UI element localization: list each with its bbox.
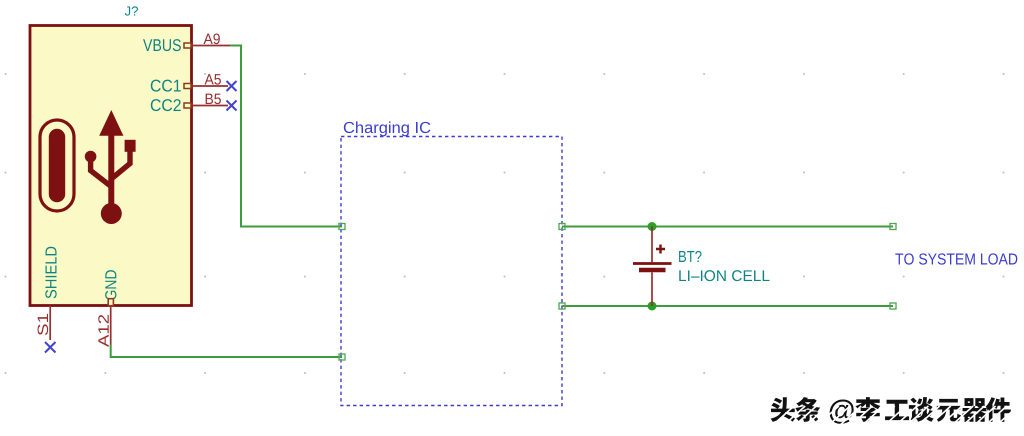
pin VBUS stub	[184, 43, 230, 48]
battery value LI-ION CELL	[679, 270, 769, 281]
pin name SHIELD	[45, 247, 56, 299]
USB-C connector J? body	[30, 26, 192, 306]
wire charging IC output top (BAT+)	[562, 226, 893, 228]
no-connect X on CC1	[227, 81, 237, 91]
pin CC2 stub	[184, 103, 228, 108]
pin GND stub	[108, 299, 113, 345]
pin name GND	[105, 270, 116, 300]
wire end square at charging IC output bottom	[559, 303, 565, 309]
USB trident icon	[85, 110, 136, 224]
net label TO SYSTEM LOAD	[895, 253, 1017, 264]
wire end square at charging IC input top	[339, 224, 345, 230]
battery BT? symbol	[633, 227, 672, 307]
pin name CC2	[151, 99, 181, 111]
watermark toutiao 头条@李工谈元器件	[754, 397, 1024, 436]
pin number A12	[98, 315, 108, 347]
wire end square at system load top	[890, 224, 896, 230]
wire VBUS to charging IC input	[230, 46, 342, 227]
pin number A9	[204, 34, 220, 45]
junction at BT- node	[648, 302, 657, 311]
wire end square at charging IC input bottom	[339, 354, 345, 360]
battery reference BT?	[679, 251, 701, 262]
label Charging IC	[344, 121, 431, 136]
pin SHIELD stub	[49, 306, 51, 341]
pin name CC1	[151, 80, 181, 92]
wire charging IC output bottom (BAT-)	[562, 305, 893, 307]
pin number B5	[206, 94, 221, 104]
wire end square at charging IC output top	[559, 224, 565, 230]
wire end square at system load bottom	[890, 303, 896, 309]
pin CC1 stub	[184, 84, 228, 89]
USB receptacle capsule icon	[40, 120, 74, 211]
no-connect X on CC2	[227, 101, 237, 111]
pin name VBUS	[143, 39, 181, 51]
wire GND to charging IC input	[111, 345, 342, 358]
junction at BT+ node	[648, 222, 657, 231]
pin number S1	[38, 314, 49, 335]
no-connect X on SHIELD	[45, 342, 56, 353]
pin number A5	[205, 74, 221, 84]
charging IC dashed box	[341, 137, 562, 406]
reference designator J?	[125, 6, 138, 15]
